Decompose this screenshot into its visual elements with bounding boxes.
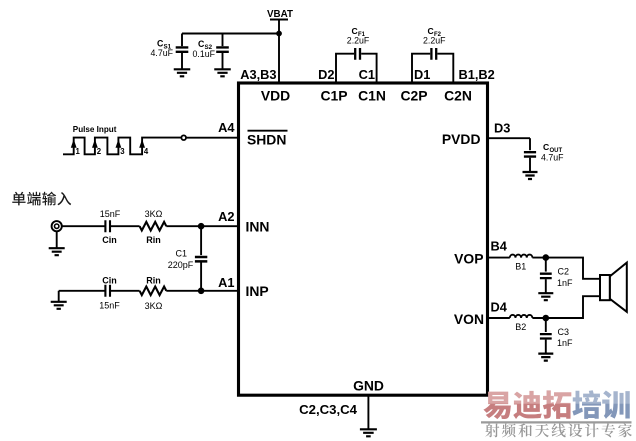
svg-text:4.7uF: 4.7uF [541,152,564,162]
svg-text:B2: B2 [515,322,526,332]
svg-text:VOP: VOP [454,251,483,267]
svg-text:3KΩ: 3KΩ [145,209,163,219]
svg-text:Rin: Rin [146,235,161,245]
wire SHDN [186,137,238,139]
capacitor CS2 0.1uF [193,34,229,69]
svg-text:4: 4 [144,147,149,156]
capacitor Cin 15nF (lower) [99,275,120,310]
capacitor C2 1nF [540,258,573,293]
svg-text:A2: A2 [218,209,234,224]
svg-text:B4: B4 [491,239,508,254]
junction VBAT node [276,31,282,37]
svg-text:C1: C1 [175,249,187,259]
power VBAT [267,9,293,83]
wire ground to Cin [59,290,105,292]
ground [174,69,191,76]
capacitor CF2 2.2uF [423,26,446,60]
svg-text:4.7uF: 4.7uF [151,48,174,58]
svg-text:C1N: C1N [358,88,386,104]
capacitor CF1 2.2uF [347,26,370,60]
label dan-duan-shu-ru (single ended input) [12,192,71,206]
node pulse input terminal [181,135,186,140]
svg-text:C: C [352,26,358,36]
wire PVDD [488,137,530,139]
wire C1P loop [336,54,354,83]
wire Rin to INN [166,225,238,227]
svg-text:2: 2 [97,147,102,156]
svg-text:1nF: 1nF [557,278,573,288]
svg-text:B1,B2: B1,B2 [459,67,495,82]
svg-text:C2,C3,C4: C2,C3,C4 [299,402,358,417]
label SHDN with overline [247,131,288,148]
svg-text:C2: C2 [558,267,570,277]
ground [523,172,538,179]
svg-text:Pulse Input: Pulse Input [73,125,117,134]
svg-text:INN: INN [246,219,270,235]
svg-text:C2N: C2N [444,88,472,104]
inductor B2 [510,315,533,332]
svg-text:C: C [543,142,549,152]
wire C2N loop [437,54,453,83]
svg-text:C3: C3 [558,327,570,337]
arrow pulse edge 1 [71,139,81,156]
svg-text:B1: B1 [515,261,526,271]
svg-text:D1: D1 [414,67,430,82]
ground [49,248,65,255]
svg-text:INP: INP [246,283,269,299]
wire connector ground lead [56,231,58,248]
capacitor C1 220pF [168,226,208,291]
resistor Rin 3K (upper) [140,209,167,245]
svg-text:D2: D2 [318,67,334,82]
svg-text:2.2uF: 2.2uF [423,36,446,46]
svg-text:PVDD: PVDD [442,131,481,147]
svg-text:C2P: C2P [400,88,427,104]
arrow pulse edge 3 [116,139,126,156]
junction node VON filter [543,315,550,322]
wire B2 to speaker [532,296,599,318]
ground [360,429,377,436]
inductor B1 [510,255,533,272]
svg-text:D3: D3 [494,120,510,135]
arrow pulse edge 2 [92,139,102,156]
wire Cin to Rin [111,225,140,227]
svg-text:15nF: 15nF [99,301,120,311]
wire VON to B2 [488,317,510,319]
svg-text:C1P: C1P [320,88,347,104]
watermark logo pei-xun (blue) [572,390,629,419]
svg-text:15nF: 15nF [100,209,121,219]
arrow pulse edge 4 [139,139,149,156]
capacitor C3 1nF [540,318,573,353]
svg-text:VBAT: VBAT [267,9,293,20]
resistor Rin 3K (lower) [140,275,167,311]
capacitor COUT 4.7uF [524,138,564,171]
wire VOP to B1 [488,257,510,259]
ground [214,69,231,76]
ground [538,354,553,361]
svg-text:C: C [428,26,434,36]
watermark divider line [481,421,632,423]
svg-text:VON: VON [454,311,484,327]
svg-text:2.2uF: 2.2uF [347,36,370,46]
capacitor Cin 15nF (upper) [100,209,121,245]
svg-text:3KΩ: 3KΩ [145,301,163,311]
svg-text:Rin: Rin [146,275,161,285]
svg-text:VDD: VDD [261,88,290,104]
svg-text:D4: D4 [491,300,508,315]
junction node INP [198,288,205,295]
capacitor CS1 4.7uF [151,34,189,69]
svg-text:0.1uF: 0.1uF [193,49,216,59]
svg-text:GND: GND [353,378,384,394]
ground [538,293,553,300]
wire Cin to Rin [111,290,140,292]
svg-text:Cin: Cin [102,275,117,285]
junction node INN [198,223,205,230]
junction node VOP filter [543,254,550,261]
wire Rin to INP [166,290,238,292]
ground [51,291,67,309]
wire input to Cin [62,225,105,227]
svg-text:A4: A4 [218,120,235,135]
svg-text:220pF: 220pF [168,260,194,270]
svg-text:1: 1 [76,147,81,156]
svg-text:1nF: 1nF [557,338,573,348]
watermark logo yi-di-tuo (red) [483,390,571,419]
svg-text:A1: A1 [218,275,234,290]
wire C1N loop [361,54,376,83]
svg-text:Cin: Cin [102,235,117,245]
wire GND [367,395,369,429]
speaker LS1 [600,263,627,312]
watermark slogan she-pin... (RF and antenna design experts) [485,423,632,437]
svg-text:3: 3 [120,147,125,156]
op-amp U1 IC body [239,83,488,395]
svg-text:A3,B3: A3,B3 [240,67,276,82]
wire C2P loop [412,54,430,83]
svg-text:SHDN: SHDN [247,132,286,148]
connector J1 input jack [52,221,62,231]
wire B1 to speaker [532,258,599,279]
svg-text:C1: C1 [359,67,375,82]
wire pulse waveform [63,138,181,155]
wire bypass rail [182,33,279,35]
